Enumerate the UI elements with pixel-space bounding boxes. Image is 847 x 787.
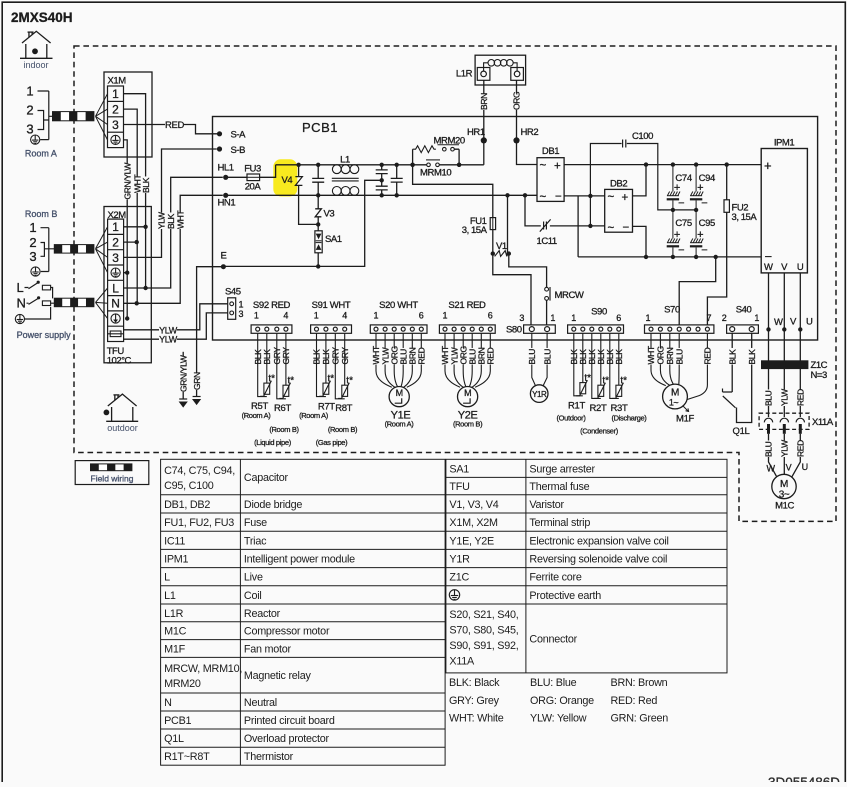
svg-text:WHT: WHT bbox=[175, 211, 185, 229]
label GRY bbox=[331, 348, 340, 365]
field wiring cable Room B bbox=[54, 245, 94, 254]
svg-text:1: 1 bbox=[442, 311, 447, 321]
svg-text:Protective earth: Protective earth bbox=[529, 590, 601, 602]
svg-text:S-A: S-A bbox=[231, 130, 247, 141]
svg-text:−: − bbox=[623, 222, 630, 234]
svg-text:MRCW: MRCW bbox=[555, 290, 584, 301]
connector S20 bbox=[370, 300, 427, 333]
svg-text:1: 1 bbox=[29, 220, 36, 235]
svg-text:PCB1: PCB1 bbox=[302, 120, 338, 135]
varistor V1 bbox=[491, 251, 495, 255]
svg-text:IPM1: IPM1 bbox=[774, 137, 795, 148]
svg-text:R6T: R6T bbox=[274, 403, 291, 414]
svg-text:3: 3 bbox=[239, 309, 244, 319]
label WHT column bbox=[133, 176, 142, 193]
svg-text:GRN: Green: GRN: Green bbox=[611, 713, 669, 725]
svg-text:1: 1 bbox=[254, 311, 259, 321]
wire YLW TFU to S45 pin1 bbox=[124, 304, 228, 330]
svg-text:1: 1 bbox=[26, 84, 33, 99]
label WHT bbox=[390, 348, 399, 365]
capacitor stacked pair mid column bbox=[376, 165, 388, 196]
svg-text:Surge arrester: Surge arrester bbox=[529, 463, 595, 475]
diode bridge DB1 bbox=[537, 158, 564, 202]
wire YLW TFU to S45 pin3 bbox=[124, 313, 228, 339]
wire L1R left leg BRN to HR1 bbox=[483, 80, 485, 165]
protective earth X2M down-arrow terminal bbox=[111, 314, 120, 323]
svg-text:S70: S70 bbox=[664, 305, 680, 316]
connector S91 bbox=[311, 300, 352, 333]
svg-text:YLW: YLW bbox=[780, 389, 790, 406]
svg-text:(Outdoor): (Outdoor) bbox=[557, 413, 587, 422]
svg-text:Coil: Coil bbox=[244, 590, 262, 602]
svg-text:V3: V3 bbox=[324, 209, 335, 220]
svg-text:Triac: Triac bbox=[244, 535, 267, 547]
wire S40 to Q1L bbox=[732, 333, 752, 422]
label GRN earth wire bbox=[192, 373, 201, 390]
svg-text:R1T~R8T: R1T~R8T bbox=[164, 751, 210, 763]
wire S20 pins to Y1E bbox=[376, 333, 421, 387]
svg-text:Z1C: Z1C bbox=[449, 572, 469, 584]
svg-text:Diode bridge: Diode bridge bbox=[244, 499, 302, 511]
wire GRN/YLW to earth arrow bbox=[182, 352, 184, 399]
svg-text:IPM1: IPM1 bbox=[164, 554, 188, 566]
svg-text:V: V bbox=[781, 262, 788, 273]
wire Room B bracket bbox=[41, 228, 55, 272]
svg-text:6: 6 bbox=[488, 311, 493, 321]
svg-text:2: 2 bbox=[112, 102, 119, 116]
IC IPM1 intelligent power module bbox=[761, 149, 807, 273]
svg-text:3~: 3~ bbox=[779, 489, 790, 500]
svg-text:Connector: Connector bbox=[529, 633, 577, 645]
wire earth rail from E bbox=[223, 180, 381, 266]
svg-text:DB2: DB2 bbox=[610, 178, 627, 189]
wire V1 left to S80 pin 3 bbox=[493, 254, 531, 325]
svg-text:RED: RED bbox=[417, 347, 427, 364]
label WHT bbox=[399, 348, 408, 365]
connector S92 bbox=[251, 300, 292, 333]
svg-text:N: N bbox=[164, 697, 172, 709]
wire U phase bbox=[799, 273, 801, 417]
svg-text:FU3: FU3 bbox=[244, 163, 261, 174]
svg-text:3: 3 bbox=[112, 251, 119, 265]
svg-text:3D055486D: 3D055486D bbox=[768, 775, 840, 782]
svg-text:BLK: BLK bbox=[141, 177, 151, 193]
connector S80 bbox=[524, 325, 556, 333]
svg-text:Power supply: Power supply bbox=[17, 330, 72, 340]
svg-text:ORG: ORG bbox=[512, 92, 522, 110]
wire plus DC rail DB1 to IPM1 bbox=[564, 164, 761, 166]
svg-text:−: − bbox=[678, 245, 684, 257]
node Room B terminals 1 2 3 bbox=[29, 220, 36, 264]
svg-text:BLK: BLK bbox=[747, 349, 757, 365]
svg-text:Q1L: Q1L bbox=[733, 426, 750, 437]
svg-text:2: 2 bbox=[112, 236, 119, 250]
node HL1 bbox=[223, 175, 228, 180]
node Room A terminals 1 2 3 bbox=[26, 84, 33, 137]
label RED bbox=[165, 121, 184, 131]
svg-text:BLU: BLU bbox=[674, 349, 684, 365]
highlight yellow marker on V4 bbox=[273, 159, 297, 196]
valve coil Y2E bbox=[458, 387, 478, 407]
svg-text:HN1: HN1 bbox=[218, 198, 236, 209]
label YLW bbox=[159, 335, 177, 345]
capacitor C95 bbox=[690, 210, 703, 257]
svg-text:S20, S21, S40,: S20, S21, S40, bbox=[449, 609, 518, 621]
switch power supply L pole bbox=[25, 283, 39, 289]
svg-text:outdoor: outdoor bbox=[107, 423, 138, 433]
label WHT bbox=[381, 348, 390, 365]
field wiring symbol bbox=[91, 464, 132, 471]
wire S80 to Y1R bbox=[532, 333, 547, 386]
svg-text:L: L bbox=[112, 281, 119, 295]
svg-text:HR2: HR2 bbox=[521, 127, 539, 138]
label BLK bbox=[322, 348, 331, 365]
label BLU bbox=[543, 348, 552, 365]
svg-text:(Discharge): (Discharge) bbox=[612, 413, 648, 422]
svg-text:BLU: BLU bbox=[542, 349, 552, 365]
svg-text:+: + bbox=[764, 158, 772, 173]
ground Room A earth bbox=[31, 135, 40, 144]
svg-text:RED: RED bbox=[165, 120, 184, 131]
PCB PCB1 outline bbox=[213, 117, 818, 341]
svg-text:WHT: White: WHT: White bbox=[449, 713, 504, 725]
wire DB1 minus to DB2 input bbox=[564, 195, 605, 197]
svg-text:BLK: BLK bbox=[166, 213, 176, 229]
svg-text:W: W bbox=[764, 262, 773, 273]
label BLU bbox=[527, 348, 536, 365]
svg-text:V: V bbox=[786, 462, 792, 472]
svg-text:3: 3 bbox=[112, 118, 119, 132]
label YLW wire V lower bbox=[780, 440, 789, 457]
svg-text:+: + bbox=[674, 229, 680, 241]
connector S45 bbox=[228, 298, 236, 320]
switch power supply N pole bbox=[27, 298, 39, 304]
overload protector Q1L bbox=[723, 389, 736, 408]
svg-text:Compressor motor: Compressor motor bbox=[244, 626, 330, 638]
svg-text:+: + bbox=[622, 192, 629, 204]
fuse power supply N bbox=[42, 301, 50, 306]
svg-text:PCB1: PCB1 bbox=[164, 715, 191, 727]
junction V bbox=[782, 327, 786, 331]
svg-text:X11A: X11A bbox=[449, 656, 475, 668]
label GRY bbox=[272, 348, 281, 365]
label YLW column bbox=[157, 212, 166, 229]
relay contact MRM20 + heater bbox=[413, 149, 460, 165]
label BLK column bbox=[141, 176, 150, 193]
thermistor R6T bbox=[277, 333, 291, 399]
label GRY bbox=[340, 348, 349, 365]
svg-text:(Condenser): (Condenser) bbox=[580, 427, 619, 436]
capacitor C74 bbox=[667, 165, 680, 210]
svg-text:Room A: Room A bbox=[25, 149, 57, 159]
svg-text:t*: t* bbox=[346, 376, 353, 387]
svg-text:Thermal fuse: Thermal fuse bbox=[529, 481, 589, 493]
svg-text:Varistor: Varistor bbox=[529, 499, 564, 511]
fuse FU2 3.15A bbox=[724, 200, 729, 213]
wire X11A to M1C W bbox=[769, 434, 778, 479]
svg-text:C75: C75 bbox=[675, 218, 691, 229]
label BLK bbox=[253, 348, 262, 365]
svg-text:1: 1 bbox=[112, 87, 119, 101]
label GRY bbox=[282, 348, 291, 365]
svg-text:2: 2 bbox=[29, 235, 36, 250]
svg-text:N: N bbox=[17, 296, 26, 311]
svg-text:E: E bbox=[221, 251, 227, 262]
svg-text:C95, C100: C95, C100 bbox=[164, 480, 214, 492]
svg-text:ORG: Orange: ORG: Orange bbox=[530, 695, 594, 707]
svg-text:R2T: R2T bbox=[590, 403, 607, 414]
label WHT column 2 bbox=[176, 212, 185, 229]
svg-text:7: 7 bbox=[706, 313, 711, 323]
wire DB2 plus up to plus rail bbox=[633, 165, 647, 196]
svg-text:Y1R: Y1R bbox=[532, 390, 547, 399]
capacitor C75 bbox=[667, 210, 680, 257]
wire X2M-N to HN1 (WHT) bbox=[124, 195, 223, 303]
svg-text:Terminal strip: Terminal strip bbox=[529, 517, 590, 529]
svg-text:1: 1 bbox=[373, 311, 378, 321]
svg-text:102°C: 102°C bbox=[107, 356, 132, 367]
svg-text:Fuse: Fuse bbox=[244, 517, 267, 529]
svg-text:BLU: BLU bbox=[764, 390, 774, 406]
node HN1 bbox=[223, 193, 228, 198]
svg-text:C74: C74 bbox=[675, 173, 691, 184]
svg-text:t*: t* bbox=[268, 374, 275, 385]
svg-text:X1M, X2M: X1M, X2M bbox=[449, 517, 498, 529]
svg-text:Y1R: Y1R bbox=[449, 554, 470, 566]
wire FU1 to V1 bbox=[492, 230, 494, 254]
svg-text:2: 2 bbox=[26, 103, 33, 118]
svg-text:RED: RED bbox=[796, 389, 806, 406]
wire W phase IPM1 to X11A bbox=[768, 273, 770, 417]
svg-text:BLU: BLU bbox=[527, 349, 537, 365]
svg-text:W: W bbox=[766, 464, 775, 474]
svg-text:3: 3 bbox=[29, 249, 36, 264]
label BLK bbox=[312, 348, 321, 365]
label WHT bbox=[450, 348, 459, 365]
svg-text:Room B: Room B bbox=[25, 209, 58, 219]
svg-text:1~: 1~ bbox=[669, 398, 679, 408]
field wiring cable Room A bbox=[53, 112, 94, 121]
reactor L1R bbox=[475, 55, 525, 85]
svg-text:RED: RED bbox=[486, 347, 496, 364]
junction V3/V4/SA1 bbox=[316, 222, 320, 226]
label BLU wire W lower bbox=[764, 440, 773, 457]
node power supply L N bbox=[17, 280, 26, 311]
wire BLK column X1M-1 to X2M-1/L bbox=[124, 94, 146, 288]
wire X2M-L to HL1 (BLK) bbox=[124, 177, 223, 288]
table legend right bbox=[446, 459, 727, 673]
wire X2M-3 to S-B (YLW) bbox=[124, 149, 217, 257]
svg-text:(Room B): (Room B) bbox=[453, 419, 483, 428]
svg-text:BRN: Brown: BRN: Brown bbox=[611, 677, 668, 689]
fuse power supply L bbox=[42, 285, 50, 290]
label WHT bbox=[372, 348, 381, 365]
connector S70 bbox=[645, 305, 714, 334]
label BLK bbox=[569, 348, 578, 365]
svg-text:YLW: YLW bbox=[780, 440, 790, 457]
label BLK bbox=[747, 348, 756, 365]
svg-text:t*: t* bbox=[288, 376, 295, 387]
svg-text:C95: C95 bbox=[699, 218, 715, 229]
svg-text:1: 1 bbox=[571, 313, 576, 323]
svg-text:RED: Red: RED: Red bbox=[611, 695, 658, 707]
svg-text:Reversing solenoide valve coil: Reversing solenoide valve coil bbox=[529, 554, 667, 566]
svg-text:S21 RED: S21 RED bbox=[448, 300, 486, 311]
svg-text:R1T: R1T bbox=[568, 401, 585, 412]
wire S70 pins to M1F bbox=[651, 333, 707, 399]
label BRN bbox=[479, 93, 488, 110]
svg-text:TFU: TFU bbox=[449, 481, 469, 493]
svg-text:L1R: L1R bbox=[164, 608, 184, 620]
svg-text:Overload protector: Overload protector bbox=[244, 733, 330, 745]
wire plus rail to FU2 to S70 pin7 bbox=[707, 165, 726, 325]
svg-text:BLU: Blue: BLU: Blue bbox=[530, 677, 577, 689]
svg-text:(Liquid pipe): (Liquid pipe) bbox=[254, 438, 292, 447]
wire power supply to cable bbox=[25, 288, 55, 320]
svg-text:HR1: HR1 bbox=[467, 127, 485, 138]
svg-text:S70, S80, S45,: S70, S80, S45, bbox=[449, 625, 518, 637]
wire N rail to 1C11 to DB2 bbox=[525, 195, 605, 226]
wire Room A bracket bbox=[38, 91, 53, 140]
thermistor R8T bbox=[335, 333, 349, 399]
svg-text:Ferrite core: Ferrite core bbox=[529, 572, 581, 584]
svg-text:DB1: DB1 bbox=[542, 146, 559, 157]
label RED wire U lower bbox=[796, 440, 805, 457]
svg-text:YLW: YLW bbox=[159, 335, 178, 345]
svg-text:Thermistor: Thermistor bbox=[244, 751, 294, 763]
wire capacitor midpoint rail bbox=[673, 209, 696, 211]
svg-text:Fan motor: Fan motor bbox=[244, 644, 292, 656]
field wiring cable power supply bbox=[54, 298, 94, 307]
svg-text:Magnetic relay: Magnetic relay bbox=[244, 670, 312, 682]
svg-text:BLU: BLU bbox=[764, 441, 774, 457]
node HR2 bbox=[513, 137, 519, 143]
svg-text:Electronic expansion valve coi: Electronic expansion valve coil bbox=[529, 535, 668, 547]
svg-text:BLK: Black: BLK: Black bbox=[449, 677, 500, 689]
svg-text:1: 1 bbox=[645, 313, 650, 323]
svg-text:GRY: Grey: GRY: Grey bbox=[449, 695, 500, 707]
node S-B bbox=[217, 146, 222, 151]
fuse TFU symbol in X2M bbox=[110, 331, 121, 337]
svg-text:S20 WHT: S20 WHT bbox=[379, 300, 418, 311]
svg-text:Neutral: Neutral bbox=[244, 697, 277, 709]
svg-text:L: L bbox=[17, 280, 24, 295]
label BLK bbox=[587, 348, 596, 365]
motor M1C compressor bbox=[772, 474, 796, 498]
label WHT bbox=[477, 348, 486, 365]
wire GRN/YLW column X1M earth to X2M earth bbox=[124, 140, 128, 319]
label RED bbox=[703, 348, 712, 365]
svg-text:M1F: M1F bbox=[164, 644, 185, 656]
wire top rail HL1 bus bbox=[276, 164, 484, 166]
label BLK bbox=[578, 348, 587, 365]
label WHT bbox=[408, 348, 417, 365]
svg-text:RED: RED bbox=[796, 440, 806, 457]
ground GRN earth arrow bbox=[193, 396, 201, 398]
svg-text:1: 1 bbox=[112, 220, 119, 234]
svg-text:MRM20: MRM20 bbox=[164, 678, 201, 690]
wire DB1 minus branch down to minus rail bbox=[577, 196, 579, 257]
fan motor M1F bbox=[663, 384, 688, 409]
svg-text:4: 4 bbox=[342, 311, 347, 321]
protective earth symbol in table bbox=[449, 590, 459, 600]
wire V phase bbox=[783, 273, 785, 417]
label WHT bbox=[468, 348, 477, 365]
svg-text:(Gas pipe): (Gas pipe) bbox=[316, 438, 348, 447]
svg-text:N: N bbox=[111, 297, 120, 311]
terminal strip X1M bbox=[104, 72, 152, 157]
triac 1C11 bbox=[540, 219, 551, 231]
wire minus rail to S70 pin4 bbox=[679, 257, 716, 325]
svg-text:MRM10: MRM10 bbox=[420, 167, 451, 178]
connector S21 bbox=[439, 300, 495, 333]
label RED wire U bbox=[796, 389, 805, 406]
label WHT bbox=[441, 348, 450, 365]
svg-text:−: − bbox=[701, 245, 707, 257]
svg-text:MRCW, MRM10,: MRCW, MRM10, bbox=[164, 663, 242, 675]
protective earth X2M terminal bbox=[111, 268, 120, 277]
svg-text:6: 6 bbox=[419, 311, 424, 321]
capacitor C94 bbox=[690, 165, 703, 210]
ground Room B earth bbox=[31, 267, 40, 276]
label WHT bbox=[656, 348, 665, 365]
label WHT bbox=[675, 348, 684, 365]
svg-text:V1, V3, V4: V1, V3, V4 bbox=[449, 499, 498, 511]
ground GRN/YLW earth arrow bbox=[179, 398, 187, 400]
svg-text:S80: S80 bbox=[506, 325, 522, 336]
label YLW bbox=[159, 326, 177, 336]
wire bottom rail HN1 bus bbox=[226, 194, 537, 196]
node S-A bbox=[217, 131, 222, 136]
svg-text:3: 3 bbox=[519, 313, 524, 323]
wire power cable fan to X2M bbox=[96, 288, 108, 319]
svg-text:M1F: M1F bbox=[676, 413, 694, 424]
svg-text:Y1E, Y2E: Y1E, Y2E bbox=[449, 535, 494, 547]
svg-text:FU1, FU2, FU3: FU1, FU2, FU3 bbox=[164, 517, 234, 529]
svg-text:C94: C94 bbox=[699, 173, 715, 184]
svg-text:(Room A): (Room A) bbox=[242, 411, 272, 420]
fuse FU1 3.15A bbox=[490, 218, 495, 230]
svg-text:1: 1 bbox=[754, 313, 759, 323]
surge arrester SA1 bbox=[317, 224, 319, 266]
label WHT bbox=[459, 348, 468, 365]
relay contact MRM10 bbox=[427, 163, 431, 167]
label WHT bbox=[417, 348, 426, 365]
svg-text:6: 6 bbox=[616, 313, 621, 323]
svg-text:U: U bbox=[806, 317, 813, 328]
relay contact MRCW bbox=[545, 287, 549, 291]
wire X2M cell stubs bbox=[124, 227, 146, 273]
dashed outdoor unit boundary bbox=[74, 46, 836, 521]
svg-text:L1: L1 bbox=[164, 590, 176, 602]
svg-text:(Room B): (Room B) bbox=[269, 425, 299, 434]
svg-text:3: 3 bbox=[26, 122, 33, 137]
svg-text:Q1L: Q1L bbox=[164, 733, 184, 745]
wire X11A to M1C U bbox=[791, 434, 800, 479]
svg-text:U: U bbox=[797, 262, 804, 273]
svg-text:RED: RED bbox=[703, 347, 713, 364]
svg-text:indoor: indoor bbox=[23, 60, 48, 70]
svg-text:+: + bbox=[697, 229, 703, 241]
label BLK column 2 bbox=[166, 212, 175, 229]
node HR1 bbox=[481, 137, 487, 143]
wire RED X1M-3 to S-A bbox=[124, 125, 218, 134]
svg-text:2MXS40H: 2MXS40H bbox=[11, 10, 73, 25]
svg-text:~: ~ bbox=[540, 192, 547, 204]
wire Room A cable fan to X1M bbox=[96, 94, 108, 140]
table legend left bbox=[161, 459, 446, 765]
svg-text:S-B: S-B bbox=[231, 145, 246, 156]
